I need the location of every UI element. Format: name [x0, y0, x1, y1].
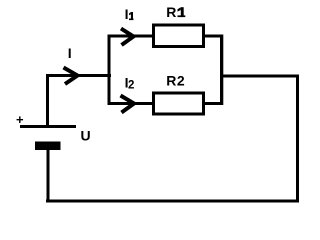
svg-text:R: R: [166, 4, 176, 20]
svg-text:I: I: [68, 45, 72, 61]
svg-text:+: +: [16, 112, 24, 127]
svg-text:2: 2: [128, 79, 134, 91]
svg-text:2: 2: [177, 73, 185, 89]
svg-text:I: I: [125, 6, 129, 22]
svg-text:U: U: [81, 128, 91, 144]
svg-text:R: R: [166, 73, 176, 89]
